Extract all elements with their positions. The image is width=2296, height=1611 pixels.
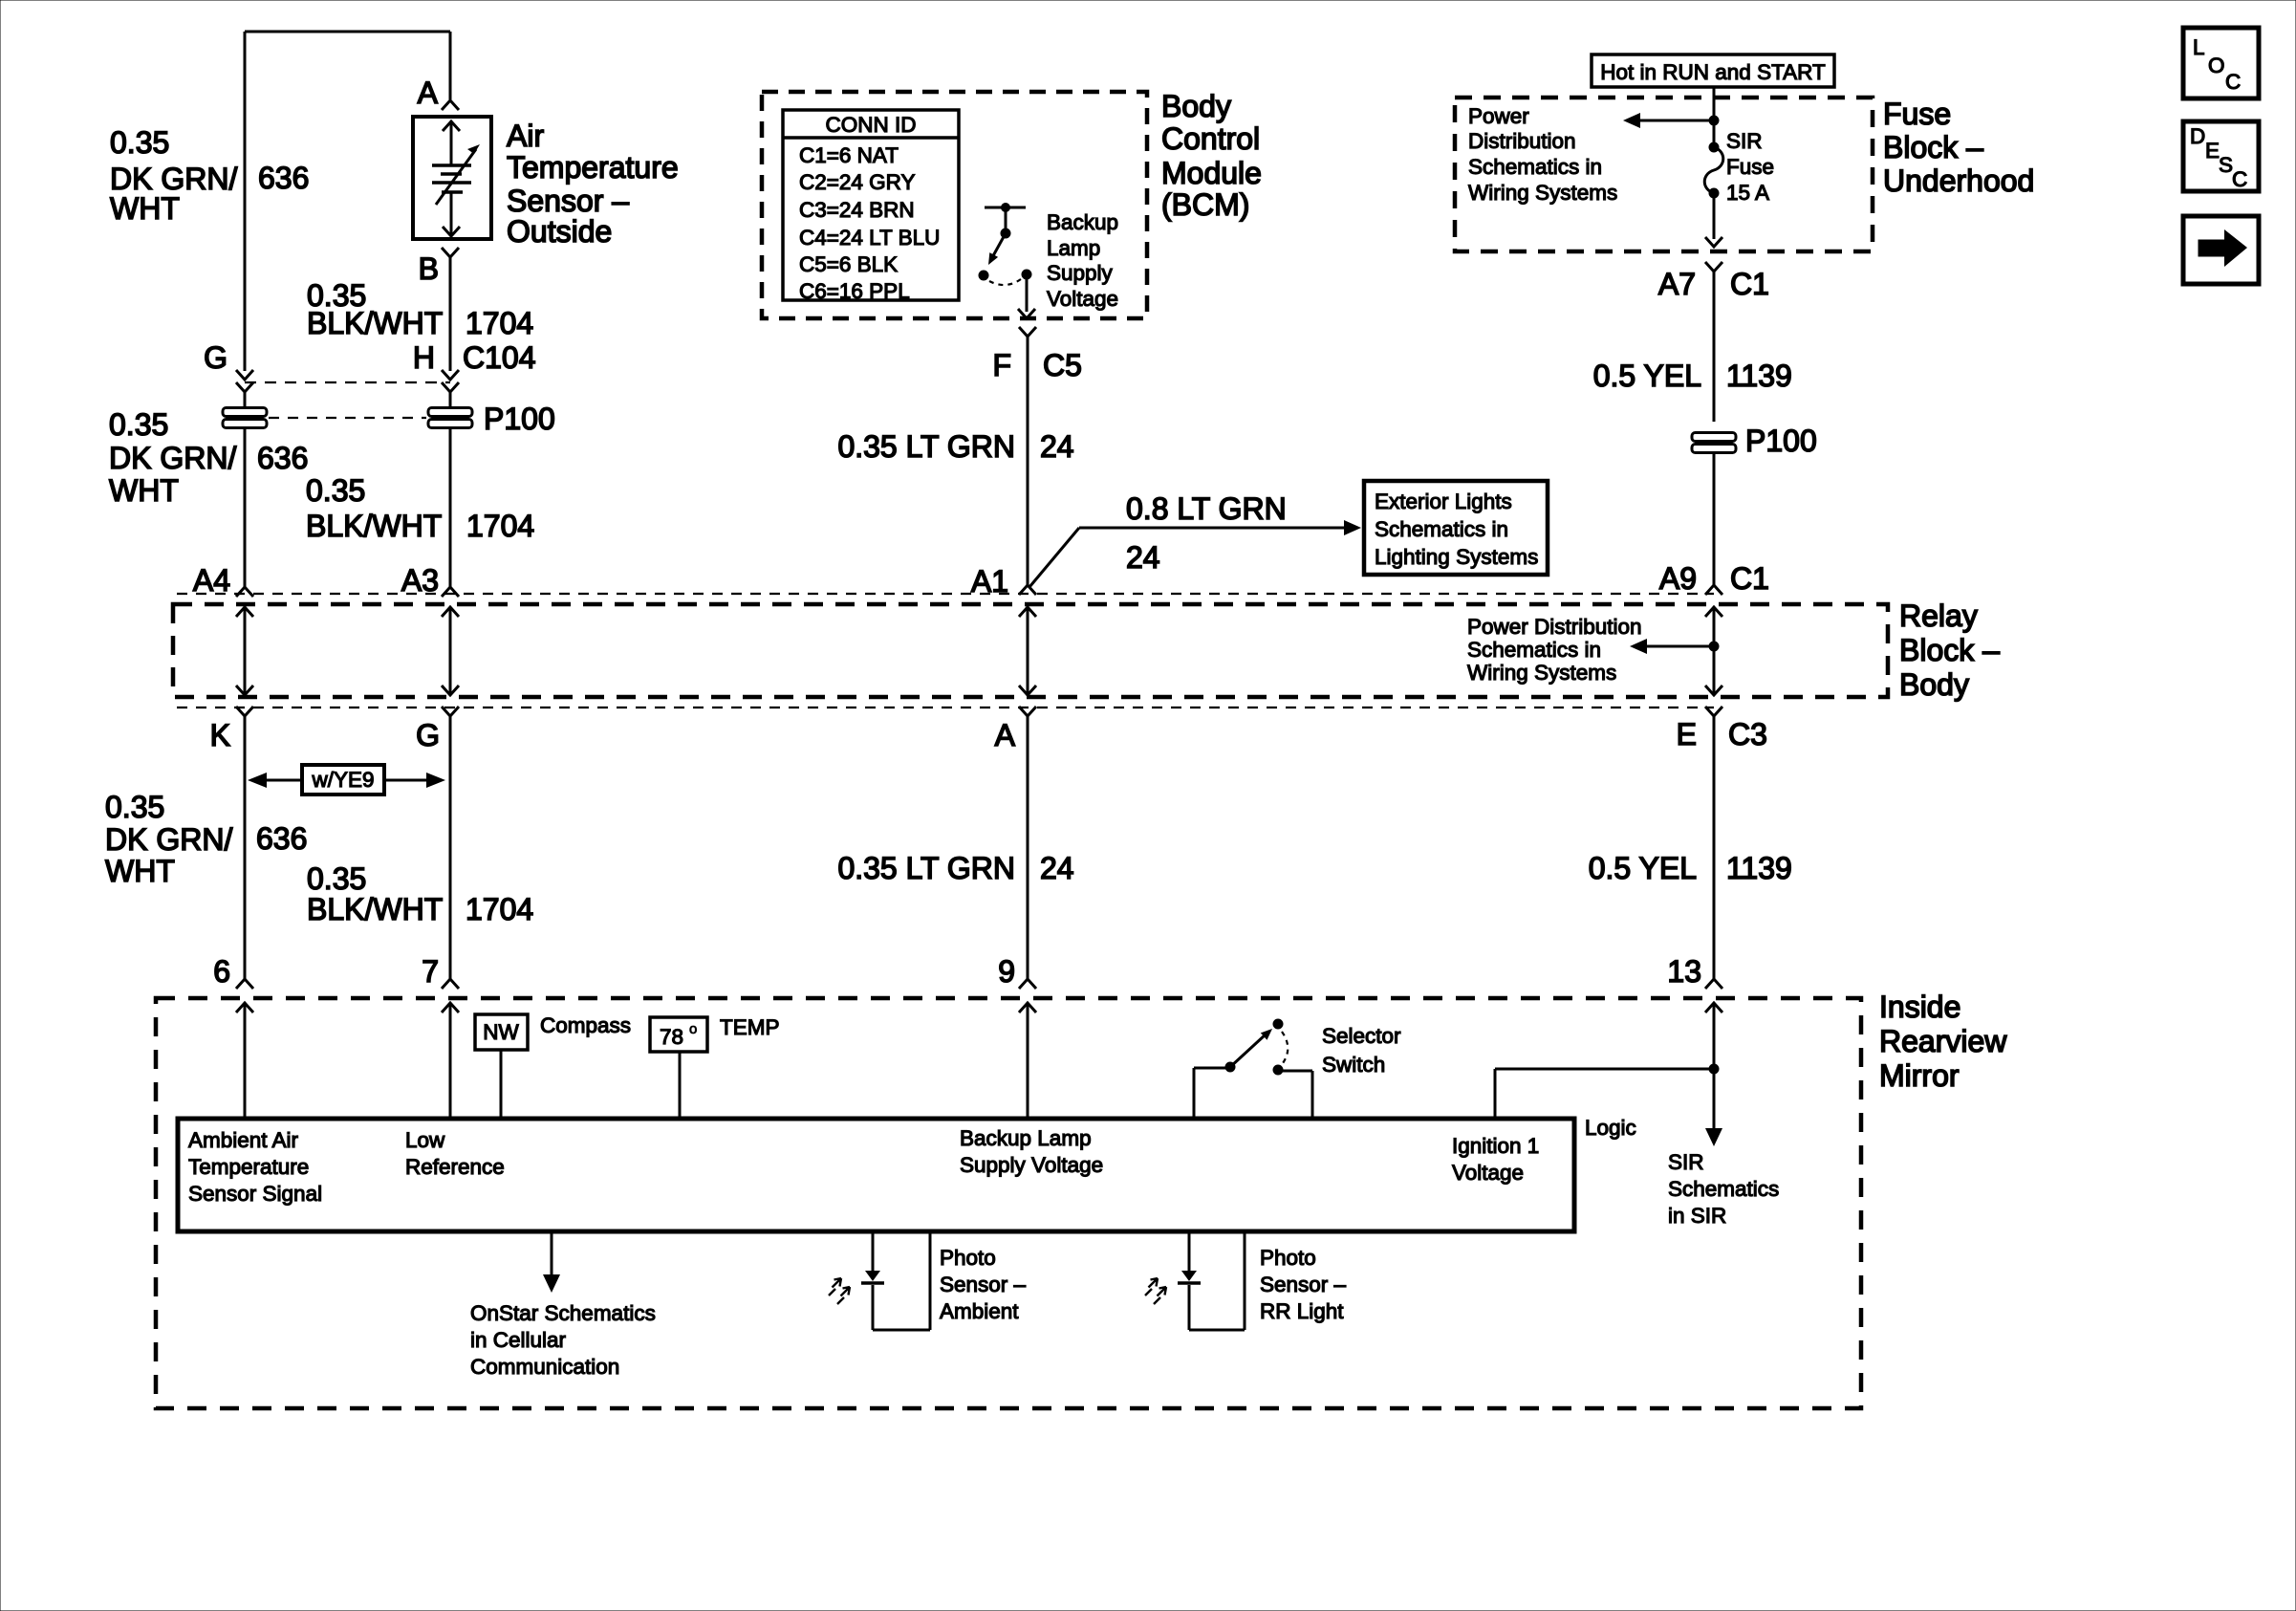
svg-text:1704: 1704 xyxy=(466,892,533,926)
svg-text:0.35: 0.35 xyxy=(306,473,365,508)
svg-text:o: o xyxy=(689,1021,697,1037)
wire W1 vertical 636 middle xyxy=(244,716,247,979)
svg-text:Reference: Reference xyxy=(405,1155,505,1179)
svg-text:7: 7 xyxy=(422,954,439,989)
branch wire 0.8 LT GRN horizontal xyxy=(1079,527,1345,530)
pin 9 fork xyxy=(1019,979,1036,989)
svg-text:0.5 YEL: 0.5 YEL xyxy=(1589,851,1697,885)
svg-text:SIR: SIR xyxy=(1726,129,1763,153)
wire W3 vertical LT GRN middle xyxy=(1027,716,1029,979)
svg-text:C2=24 GRY: C2=24 GRY xyxy=(799,170,916,194)
grommet P100 dashed link xyxy=(269,417,426,419)
onstar feed arrowhead xyxy=(543,1274,560,1293)
photo sensor ambient lower leg xyxy=(872,1285,875,1330)
svg-text:9: 9 xyxy=(998,954,1015,989)
svg-text:H: H xyxy=(413,340,435,375)
svg-text:24: 24 xyxy=(1040,851,1074,885)
svg-text:BLK/WHT: BLK/WHT xyxy=(307,892,443,926)
svg-text:Schematics in: Schematics in xyxy=(1468,155,1602,179)
ATS thermistor plate 3 xyxy=(432,181,471,185)
svg-text:in SIR: in SIR xyxy=(1668,1204,1726,1228)
BCM internal switch blade arrow xyxy=(990,233,1006,261)
pin A fork xyxy=(442,100,459,110)
pin A fork xyxy=(1019,707,1036,716)
w/YE9 option note box xyxy=(302,765,384,795)
svg-text:Block –: Block – xyxy=(1883,130,1983,164)
svg-text:C5: C5 xyxy=(1043,348,1082,382)
svg-text:S: S xyxy=(2219,153,2233,177)
svg-text:Communication: Communication xyxy=(470,1355,619,1379)
svg-text:G: G xyxy=(416,718,440,752)
svg-text:D: D xyxy=(2190,124,2205,148)
pin 6 fork xyxy=(236,979,253,989)
svg-text:1139: 1139 xyxy=(1726,851,1792,885)
svg-text:C3: C3 xyxy=(1728,717,1767,751)
svg-text:Temperature: Temperature xyxy=(507,150,679,185)
svg-text:0.8 LT GRN: 0.8 LT GRN xyxy=(1126,491,1287,526)
svg-text:CONN ID: CONN ID xyxy=(826,113,917,137)
svg-text:Power: Power xyxy=(1468,104,1529,128)
fuse block underhood dashed box xyxy=(1455,98,1873,251)
svg-text:636: 636 xyxy=(258,161,309,195)
svg-text:SIR: SIR xyxy=(1668,1150,1704,1174)
svg-text:6: 6 xyxy=(213,954,230,989)
wire W1 segment to grommet xyxy=(244,392,247,408)
svg-text:C1=6 NAT: C1=6 NAT xyxy=(799,143,899,167)
fuse SIR 15A element xyxy=(1709,142,1720,153)
fuse block exit arrow xyxy=(1705,237,1722,247)
ATS thermistor vertical arrow down xyxy=(450,193,453,236)
relay block body dashed box xyxy=(173,604,1888,697)
pin 7 fork xyxy=(442,979,459,989)
svg-text:Photo: Photo xyxy=(940,1246,996,1270)
onstar feed stem xyxy=(551,1231,553,1276)
svg-text:C104: C104 xyxy=(463,340,536,375)
body control module BCM dashed box xyxy=(762,92,1147,318)
selector switch pivot dot xyxy=(1225,1062,1236,1073)
connector C104 arrow right xyxy=(442,370,459,380)
svg-text:Block –: Block – xyxy=(1899,633,2000,667)
svg-text:1704: 1704 xyxy=(466,306,533,340)
svg-text:Supply Voltage: Supply Voltage xyxy=(960,1153,1103,1177)
svg-text:(BCM): (BCM) xyxy=(1161,187,1249,222)
svg-text:NW: NW xyxy=(483,1020,519,1044)
svg-text:Sensor –: Sensor – xyxy=(940,1273,1027,1296)
connector C104 dashed line xyxy=(245,381,450,383)
svg-text:Schematics in: Schematics in xyxy=(1467,638,1601,662)
branch wire 0.8 LT GRN diagonal xyxy=(1029,528,1079,587)
svg-text:0.35: 0.35 xyxy=(109,407,168,442)
svg-text:OnStar Schematics: OnStar Schematics xyxy=(470,1301,656,1325)
branch arrowhead xyxy=(1344,520,1361,535)
photo sensor RR light bolts xyxy=(1145,1278,1158,1295)
photo sensor ambient right leg xyxy=(929,1231,932,1330)
wire W4 fuse to exit xyxy=(1713,193,1716,239)
svg-text:TEMP: TEMP xyxy=(720,1015,780,1039)
svg-text:Low: Low xyxy=(405,1128,445,1152)
compass stem xyxy=(500,1050,503,1119)
relay tap arrow left xyxy=(1637,645,1714,648)
compass NW box xyxy=(475,1014,528,1050)
svg-text:Sensor –: Sensor – xyxy=(1260,1273,1347,1296)
svg-text:WHT: WHT xyxy=(105,854,175,888)
grommet P100 left xyxy=(223,408,267,428)
selector switch right dot xyxy=(1273,1065,1284,1076)
svg-text:Distribution: Distribution xyxy=(1468,129,1576,153)
wire W1-W2 top jumper xyxy=(245,31,450,33)
svg-text:Lamp: Lamp xyxy=(1047,236,1100,260)
svg-text:Control: Control xyxy=(1161,121,1260,156)
svg-text:Photo: Photo xyxy=(1260,1246,1316,1270)
svg-text:24: 24 xyxy=(1040,429,1074,464)
svg-text:A9: A9 xyxy=(1659,561,1697,596)
svg-text:P100: P100 xyxy=(484,402,555,436)
svg-text:Backup: Backup xyxy=(1047,210,1118,234)
mirror logic module box xyxy=(178,1119,1574,1231)
svg-text:DK GRN/: DK GRN/ xyxy=(105,822,232,857)
svg-text:C6=16 PPL: C6=16 PPL xyxy=(799,279,910,303)
svg-text:C3=24 BRN: C3=24 BRN xyxy=(799,198,915,222)
ATS thermistor plate 4 xyxy=(442,190,463,194)
selector switch left stub xyxy=(1193,1068,1196,1119)
svg-text:BLK/WHT: BLK/WHT xyxy=(307,306,443,340)
svg-text:K: K xyxy=(210,718,230,752)
selector switch blade arrow xyxy=(1230,1034,1266,1067)
svg-text:0.35: 0.35 xyxy=(105,790,164,824)
svg-text:Ambient: Ambient xyxy=(940,1299,1019,1323)
hot in RUN and START box xyxy=(1592,54,1834,87)
svg-text:E: E xyxy=(1677,717,1697,751)
IRM wire W4 entry arrow xyxy=(1705,1003,1722,1012)
photo sensor RR light lower leg xyxy=(1188,1285,1191,1330)
svg-text:Lighting Systems: Lighting Systems xyxy=(1375,545,1538,569)
svg-text:A: A xyxy=(418,76,439,110)
wire W1 vertical 636 lower xyxy=(244,428,247,587)
svg-text:Logic: Logic xyxy=(1585,1116,1636,1140)
connector line below relay block xyxy=(177,707,1714,708)
svg-text:Hot in RUN and START: Hot in RUN and START xyxy=(1600,60,1826,84)
pin B fork xyxy=(442,248,459,257)
BCM switch pole dots xyxy=(979,271,989,281)
svg-text:C5=6 BLK: C5=6 BLK xyxy=(799,252,898,276)
logic wire horizontal xyxy=(1495,1068,1714,1071)
SIR feed arrowhead xyxy=(1705,1128,1722,1146)
svg-text:Module: Module xyxy=(1161,156,1262,190)
logic wire stub xyxy=(1494,1069,1497,1119)
wire W4 below grommet xyxy=(1713,453,1716,585)
svg-text:Outside: Outside xyxy=(507,214,612,249)
svg-text:13: 13 xyxy=(1667,954,1701,989)
svg-text:C: C xyxy=(2225,70,2241,94)
fuse block tap arrow left xyxy=(1631,120,1714,122)
svg-text:RR Light: RR Light xyxy=(1260,1299,1344,1323)
wire W4 vertical YEL middle xyxy=(1713,716,1716,979)
svg-text:WHT: WHT xyxy=(110,191,180,226)
svg-text:Schematics in: Schematics in xyxy=(1375,517,1508,541)
svg-text:Inside: Inside xyxy=(1879,990,1960,1024)
pin G fork xyxy=(442,707,459,716)
relay wire W3 through xyxy=(1019,607,1036,617)
pin F fork xyxy=(1019,327,1036,337)
IRM wire W1 entry arrow xyxy=(236,1003,253,1012)
svg-text:Selector: Selector xyxy=(1322,1024,1401,1048)
svg-text:1704: 1704 xyxy=(466,509,534,543)
svg-text:A3: A3 xyxy=(401,563,439,598)
svg-text:Voltage: Voltage xyxy=(1452,1161,1524,1185)
w/YE9 arrow left xyxy=(264,779,302,782)
svg-text:in Cellular: in Cellular xyxy=(470,1328,567,1352)
node A9 fork xyxy=(1705,585,1722,595)
selector switch dashed arc xyxy=(1282,1032,1288,1063)
svg-text:Temperature: Temperature xyxy=(188,1155,309,1179)
svg-text:C4=24 LT BLU: C4=24 LT BLU xyxy=(799,226,940,250)
svg-text:Wiring Systems: Wiring Systems xyxy=(1467,661,1616,685)
wire W1 vertical 636 upper xyxy=(244,32,247,371)
svg-text:Fuse: Fuse xyxy=(1883,97,1951,131)
wire W2 vertical 1704 upper xyxy=(449,257,452,371)
svg-text:G: G xyxy=(204,340,227,375)
svg-text:Ignition 1: Ignition 1 xyxy=(1452,1134,1539,1158)
wire W2 drop to sensor pin A xyxy=(449,32,452,99)
svg-text:1139: 1139 xyxy=(1726,359,1792,393)
svg-text:Voltage: Voltage xyxy=(1047,287,1118,311)
svg-text:Body: Body xyxy=(1161,89,1231,123)
svg-text:Supply: Supply xyxy=(1047,261,1114,285)
svg-text:Mirror: Mirror xyxy=(1879,1058,1960,1093)
svg-text:0.35 LT GRN: 0.35 LT GRN xyxy=(837,429,1015,464)
svg-text:0.35 LT GRN: 0.35 LT GRN xyxy=(837,851,1015,885)
svg-text:L: L xyxy=(2193,35,2205,59)
svg-text:Wiring Systems: Wiring Systems xyxy=(1468,181,1617,205)
BCM internal switch top contact xyxy=(985,207,1026,209)
air temperature sensor ATS box xyxy=(413,117,491,239)
connector C104 fork left xyxy=(236,382,253,392)
svg-text:Relay: Relay xyxy=(1899,599,1978,633)
pin K fork xyxy=(236,707,253,716)
svg-text:Sensor Signal: Sensor Signal xyxy=(188,1182,322,1206)
svg-text:Switch: Switch xyxy=(1322,1053,1385,1077)
svg-text:Sensor –: Sensor – xyxy=(507,184,629,218)
svg-text:P100: P100 xyxy=(1745,424,1817,458)
svg-text:Fuse: Fuse xyxy=(1726,155,1774,179)
wire W2 vertical 1704 middle xyxy=(449,716,452,979)
relay wire W1 through xyxy=(236,607,253,617)
photo sensor ambient bottom link xyxy=(873,1329,930,1332)
connector line above relay block xyxy=(177,593,1714,595)
photo sensor RR light diode xyxy=(1178,1271,1201,1283)
svg-text:Schematics: Schematics xyxy=(1668,1177,1779,1201)
pin A7 fork xyxy=(1705,262,1722,272)
svg-text:A4: A4 xyxy=(193,563,230,598)
svg-text:24: 24 xyxy=(1126,540,1160,575)
ATS thermistor plate 1 xyxy=(432,163,471,167)
svg-text:0.35: 0.35 xyxy=(110,125,169,160)
svg-text:Air: Air xyxy=(507,119,544,153)
temp stem xyxy=(679,1052,682,1119)
logic junction dot xyxy=(1709,1064,1720,1075)
pin E fork xyxy=(1705,707,1722,716)
inside rearview mirror dashed box xyxy=(156,998,1861,1408)
wire W4 vertical YEL xyxy=(1713,272,1716,422)
svg-text:Ambient Air: Ambient Air xyxy=(188,1128,299,1152)
selector switch upper dot xyxy=(1273,1019,1284,1030)
svg-text:O: O xyxy=(2208,54,2225,77)
svg-text:C1: C1 xyxy=(1730,561,1769,596)
svg-text:C1: C1 xyxy=(1730,267,1769,301)
connector C104 arrow left xyxy=(236,370,253,380)
svg-text:DK GRN/: DK GRN/ xyxy=(109,441,236,475)
next-arrow icon box xyxy=(2183,216,2259,284)
svg-text:E: E xyxy=(2205,139,2220,163)
node A4 fork xyxy=(236,587,253,597)
svg-text:Backup Lamp: Backup Lamp xyxy=(960,1126,1092,1150)
svg-text:Compass: Compass xyxy=(540,1013,631,1037)
selector switch right stub xyxy=(1282,1070,1312,1073)
wire W4 to fuse xyxy=(1713,120,1716,147)
connector C104 fork right xyxy=(442,382,459,392)
ATS variable diagonal arrow xyxy=(436,149,476,205)
relay wire W2 through xyxy=(442,607,459,617)
photo sensor RR light bottom link xyxy=(1189,1329,1245,1332)
temp display box 78 xyxy=(650,1017,707,1052)
DESC icon box xyxy=(2183,121,2259,191)
node A3 fork xyxy=(442,587,459,597)
svg-text:636: 636 xyxy=(256,821,307,856)
svg-text:Body: Body xyxy=(1899,667,1969,702)
svg-text:A: A xyxy=(995,718,1016,752)
IRM wire W2 entry arrow xyxy=(442,1003,459,1012)
wire W3 vertical LT GRN upper xyxy=(1027,337,1029,585)
photo sensor RR light left leg xyxy=(1188,1231,1191,1272)
svg-text:BLK/WHT: BLK/WHT xyxy=(306,509,442,543)
wire W3 exit BCM xyxy=(1026,278,1029,312)
svg-text:15 A: 15 A xyxy=(1726,181,1769,205)
pin 13 fork xyxy=(1705,979,1722,989)
svg-text:0.5 YEL: 0.5 YEL xyxy=(1593,359,1701,393)
grommet P100 right side xyxy=(1692,433,1736,453)
photo sensor ambient diode xyxy=(861,1271,884,1283)
svg-text:78: 78 xyxy=(660,1025,683,1049)
svg-text:0.35: 0.35 xyxy=(307,861,366,896)
photo sensor ambient left leg xyxy=(872,1231,875,1272)
wire W4 from hot box xyxy=(1713,87,1716,120)
relay wire W4 through xyxy=(1705,607,1722,617)
photo sensor ambient light bolts xyxy=(829,1278,841,1295)
IRM wire W3 entry arrow xyxy=(1019,1003,1036,1012)
node A1 fork xyxy=(1019,585,1036,595)
photo sensor RR light right leg xyxy=(1244,1231,1246,1330)
BCM internal switch stem xyxy=(1005,207,1007,233)
ATS thermistor vertical arrow up xyxy=(450,121,453,164)
svg-text:636: 636 xyxy=(257,441,308,475)
svg-text:F: F xyxy=(992,348,1011,382)
svg-text:WHT: WHT xyxy=(109,473,179,508)
CONN ID table xyxy=(783,110,959,300)
svg-text:Power Distribution: Power Distribution xyxy=(1467,615,1642,639)
svg-text:C: C xyxy=(2232,167,2247,191)
BCM switch dashed arc xyxy=(989,279,1021,285)
svg-text:w/YE9: w/YE9 xyxy=(311,768,374,792)
grommet P100 right xyxy=(428,408,472,428)
ATS thermistor plate 2 xyxy=(441,172,462,176)
svg-text:Exterior Lights: Exterior Lights xyxy=(1375,490,1512,513)
wire W2 vertical 1704 lower xyxy=(449,428,452,587)
LOC icon box xyxy=(2183,28,2259,98)
w/YE9 arrow right xyxy=(384,779,427,782)
svg-text:Underhood: Underhood xyxy=(1883,163,2034,198)
svg-text:A7: A7 xyxy=(1658,267,1696,301)
wire W2 segment to grommet xyxy=(449,392,452,408)
svg-text:B: B xyxy=(419,251,439,286)
exterior lights callout box xyxy=(1364,481,1548,575)
svg-text:Rearview: Rearview xyxy=(1879,1024,2007,1058)
